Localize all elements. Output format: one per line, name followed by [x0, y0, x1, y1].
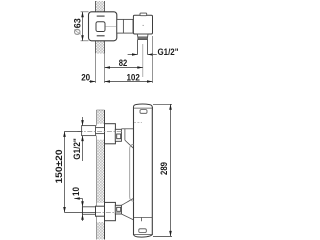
dimension line Ø63 — [81, 12, 84, 41]
cap seam — [134, 107, 153, 109]
svg-text:82: 82 — [119, 58, 128, 68]
wall (side view) hatch upper — [97, 110, 105, 240]
svg-text:G1/2": G1/2" — [158, 47, 179, 57]
valve body (top view) — [133, 15, 152, 34]
svg-text:10: 10 — [71, 187, 81, 196]
150±20 lower jog line — [65, 212, 97, 214]
svg-text:Ø63: Ø63 — [72, 18, 82, 35]
outlet pipe (top view) — [138, 40, 148, 55]
top union escutcheon — [105, 124, 116, 144]
pipe centerline — [142, 44, 144, 77]
valve right edge extension line — [152, 36, 154, 83]
body contour behind bar — [130, 144, 134, 201]
handle (top view) — [96, 22, 105, 32]
G1/2 dimension (top view) — [128, 53, 157, 56]
top union centerline — [78, 130, 123, 132]
svg-text:289: 289 — [159, 162, 169, 175]
handle lever edge bottom — [97, 35, 105, 37]
wall (top view) hatch below body — [96, 41, 105, 54]
150±20 dimension — [63, 131, 82, 212]
bottom union escutcheon — [105, 202, 116, 220]
centerline (top view) — [106, 25, 123, 27]
bar lower seam — [134, 217, 153, 219]
wall right edge / mounting face (side view) — [104, 110, 106, 240]
bar bottom dome — [134, 235, 153, 238]
mixer body (top view) — [89, 12, 117, 41]
top union cone to bar — [121, 129, 133, 149]
seam tick — [141, 217, 143, 221]
svg-text:150±20: 150±20 — [54, 150, 64, 184]
handle lever edge top — [97, 15, 105, 17]
valve center mark — [143, 25, 144, 26]
bar column body — [130, 106, 153, 235]
wall left edge (side view) — [96, 110, 98, 240]
bar top cap dome — [134, 104, 153, 110]
tab on valve top — [140, 13, 147, 16]
bottom union centerline — [96, 212, 122, 214]
wall face extension line — [104, 54, 106, 83]
bottom cap seam — [134, 234, 153, 236]
wall (top view) hatch above body — [96, 1, 105, 12]
wall left edge extension line — [95, 54, 97, 83]
collar under valve — [137, 34, 148, 40]
neck between body and valve (top view) — [117, 19, 133, 33]
svg-text:20: 20 — [81, 72, 90, 82]
bottom union cone to bar — [121, 198, 133, 220]
82 dimension — [105, 66, 143, 69]
G1/2 dimension (side view) — [81, 117, 84, 161]
hidden inlet line — [134, 121, 142, 123]
289 dimension — [153, 104, 172, 236]
bottom union tail pipe — [82, 207, 95, 215]
10 dimension (bottom union) — [74, 197, 84, 221]
bottom union nut inner square — [117, 207, 121, 211]
extension lines for Ø63 — [81, 11, 89, 13]
top indicator window — [140, 110, 147, 114]
bottom union socket through wall — [96, 206, 105, 216]
bottom union nut — [115, 205, 121, 214]
svg-text:102: 102 — [126, 72, 140, 82]
bottom indicator window — [139, 229, 147, 233]
top union nut inner square — [117, 134, 121, 139]
top union socket through wall — [96, 128, 105, 134]
top union nut — [115, 129, 121, 141]
102 dimension — [89, 80, 153, 83]
top union tail pipe — [82, 126, 96, 136]
svg-text:G1/2": G1/2" — [72, 138, 82, 160]
